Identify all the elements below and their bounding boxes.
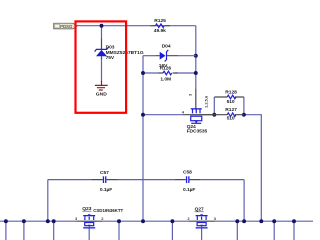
wire stub below rail x238	[118, 221, 120, 240]
ground GND	[95, 81, 108, 97]
node junction rail x548	[272, 219, 276, 223]
resistor R125	[151, 18, 171, 34]
node junction R126 left	[141, 71, 145, 75]
wire R128 parallel stubs	[214, 97, 244, 115]
node junction rail x523	[259, 219, 263, 223]
zener diode D03	[95, 39, 144, 62]
svg-text:R127: R127	[225, 107, 237, 113]
selection highlight red box	[76, 21, 127, 112]
node junction rail x96 C57 leg	[46, 219, 50, 223]
svg-text:PDSG: PDSG	[60, 24, 72, 29]
resistor R128	[214, 90, 244, 105]
offpage connector PDSG	[54, 23, 77, 29]
wire R127 row right to corner and down to rail	[244, 115, 261, 222]
wire Q24 pin4 row	[143, 113, 183, 115]
svg-text:49.9k: 49.9k	[154, 28, 166, 34]
wire D03 branch	[100, 26, 102, 81]
wire bottom rail	[0, 220, 313, 222]
wire stub below rail x107	[53, 221, 55, 240]
svg-text:Q23: Q23	[82, 206, 91, 212]
node junction rail x107	[52, 219, 56, 223]
node junction Q24 drain / R127 left	[212, 113, 216, 117]
wire capacitor row	[48, 178, 244, 180]
node junction rail x345	[170, 219, 174, 223]
wire stub below rail x588	[293, 221, 295, 240]
svg-text:75V: 75V	[106, 55, 115, 61]
node junction rail x238	[117, 219, 121, 223]
wire PDSG net top horizontal	[76, 25, 196, 27]
resistor R126	[158, 65, 178, 82]
zener diode D04	[155, 43, 196, 69]
svg-text:Q27: Q27	[195, 207, 204, 213]
resistor R127	[202, 107, 243, 121]
node junction D04 right	[194, 54, 198, 58]
wire D04 row	[143, 55, 155, 57]
node junction rail x286 left rail	[141, 219, 145, 223]
svg-text:C57: C57	[100, 170, 109, 176]
svg-text:R126: R126	[160, 65, 172, 71]
wire Q24 gate pin dark segment	[195, 89, 197, 109]
transistor Q23	[75, 206, 123, 229]
wire R126 row	[143, 72, 196, 74]
svg-text:510: 510	[227, 99, 235, 105]
svg-text:FDC3535: FDC3535	[187, 128, 208, 134]
wire below Q23	[88, 228, 90, 240]
node junction R126 right	[194, 71, 198, 75]
transistor Q27	[187, 207, 216, 229]
wire below Q27	[200, 228, 202, 240]
wire stub below rail x48	[23, 221, 25, 240]
wire Q24 gate vertical	[195, 73, 197, 89]
svg-text:C58: C58	[183, 170, 192, 176]
svg-text:0.1µF: 0.1µF	[100, 187, 112, 193]
transistor Q24	[182, 93, 215, 134]
svg-text:0.1µF: 0.1µF	[183, 187, 195, 193]
wire R125 right vertical down to D04 node	[195, 26, 197, 73]
svg-text:1.0M: 1.0M	[160, 77, 171, 83]
node junction R127 right	[242, 113, 246, 117]
svg-text:D04: D04	[162, 43, 171, 49]
node junction PDSG/D03	[100, 24, 104, 28]
capacitor C58	[175, 170, 201, 193]
svg-text:R128: R128	[225, 90, 237, 96]
wire stub below rail x475	[236, 221, 238, 240]
node junction Q24 pin4 tee	[141, 113, 145, 117]
svg-text:Q24: Q24	[187, 124, 196, 130]
wire stub below rail x12	[5, 221, 7, 240]
wire stub below rail x345	[171, 221, 173, 240]
svg-text:MMSZ5267BT1G: MMSZ5267BT1G	[106, 50, 144, 56]
node junction rail x588	[292, 219, 296, 223]
wire C58 right leg down	[243, 180, 245, 222]
wire left rail vertical	[142, 56, 144, 222]
node junction rail x12	[4, 219, 8, 223]
svg-text:1,2,5,6: 1,2,5,6	[204, 95, 209, 108]
svg-text:510: 510	[227, 115, 235, 121]
node junction rail x475	[235, 219, 239, 223]
svg-text:R125: R125	[154, 18, 166, 24]
capacitor C57	[92, 170, 118, 193]
svg-text:CSD19536KTT: CSD19536KTT	[93, 208, 123, 213]
node junction rail x488 C58 leg	[242, 219, 246, 223]
wire C57 left leg down	[47, 180, 49, 222]
svg-text:GND: GND	[96, 92, 108, 97]
svg-text:D03: D03	[106, 45, 115, 51]
node junction rail x48	[22, 219, 26, 223]
wire stub below rail x548	[273, 221, 275, 240]
